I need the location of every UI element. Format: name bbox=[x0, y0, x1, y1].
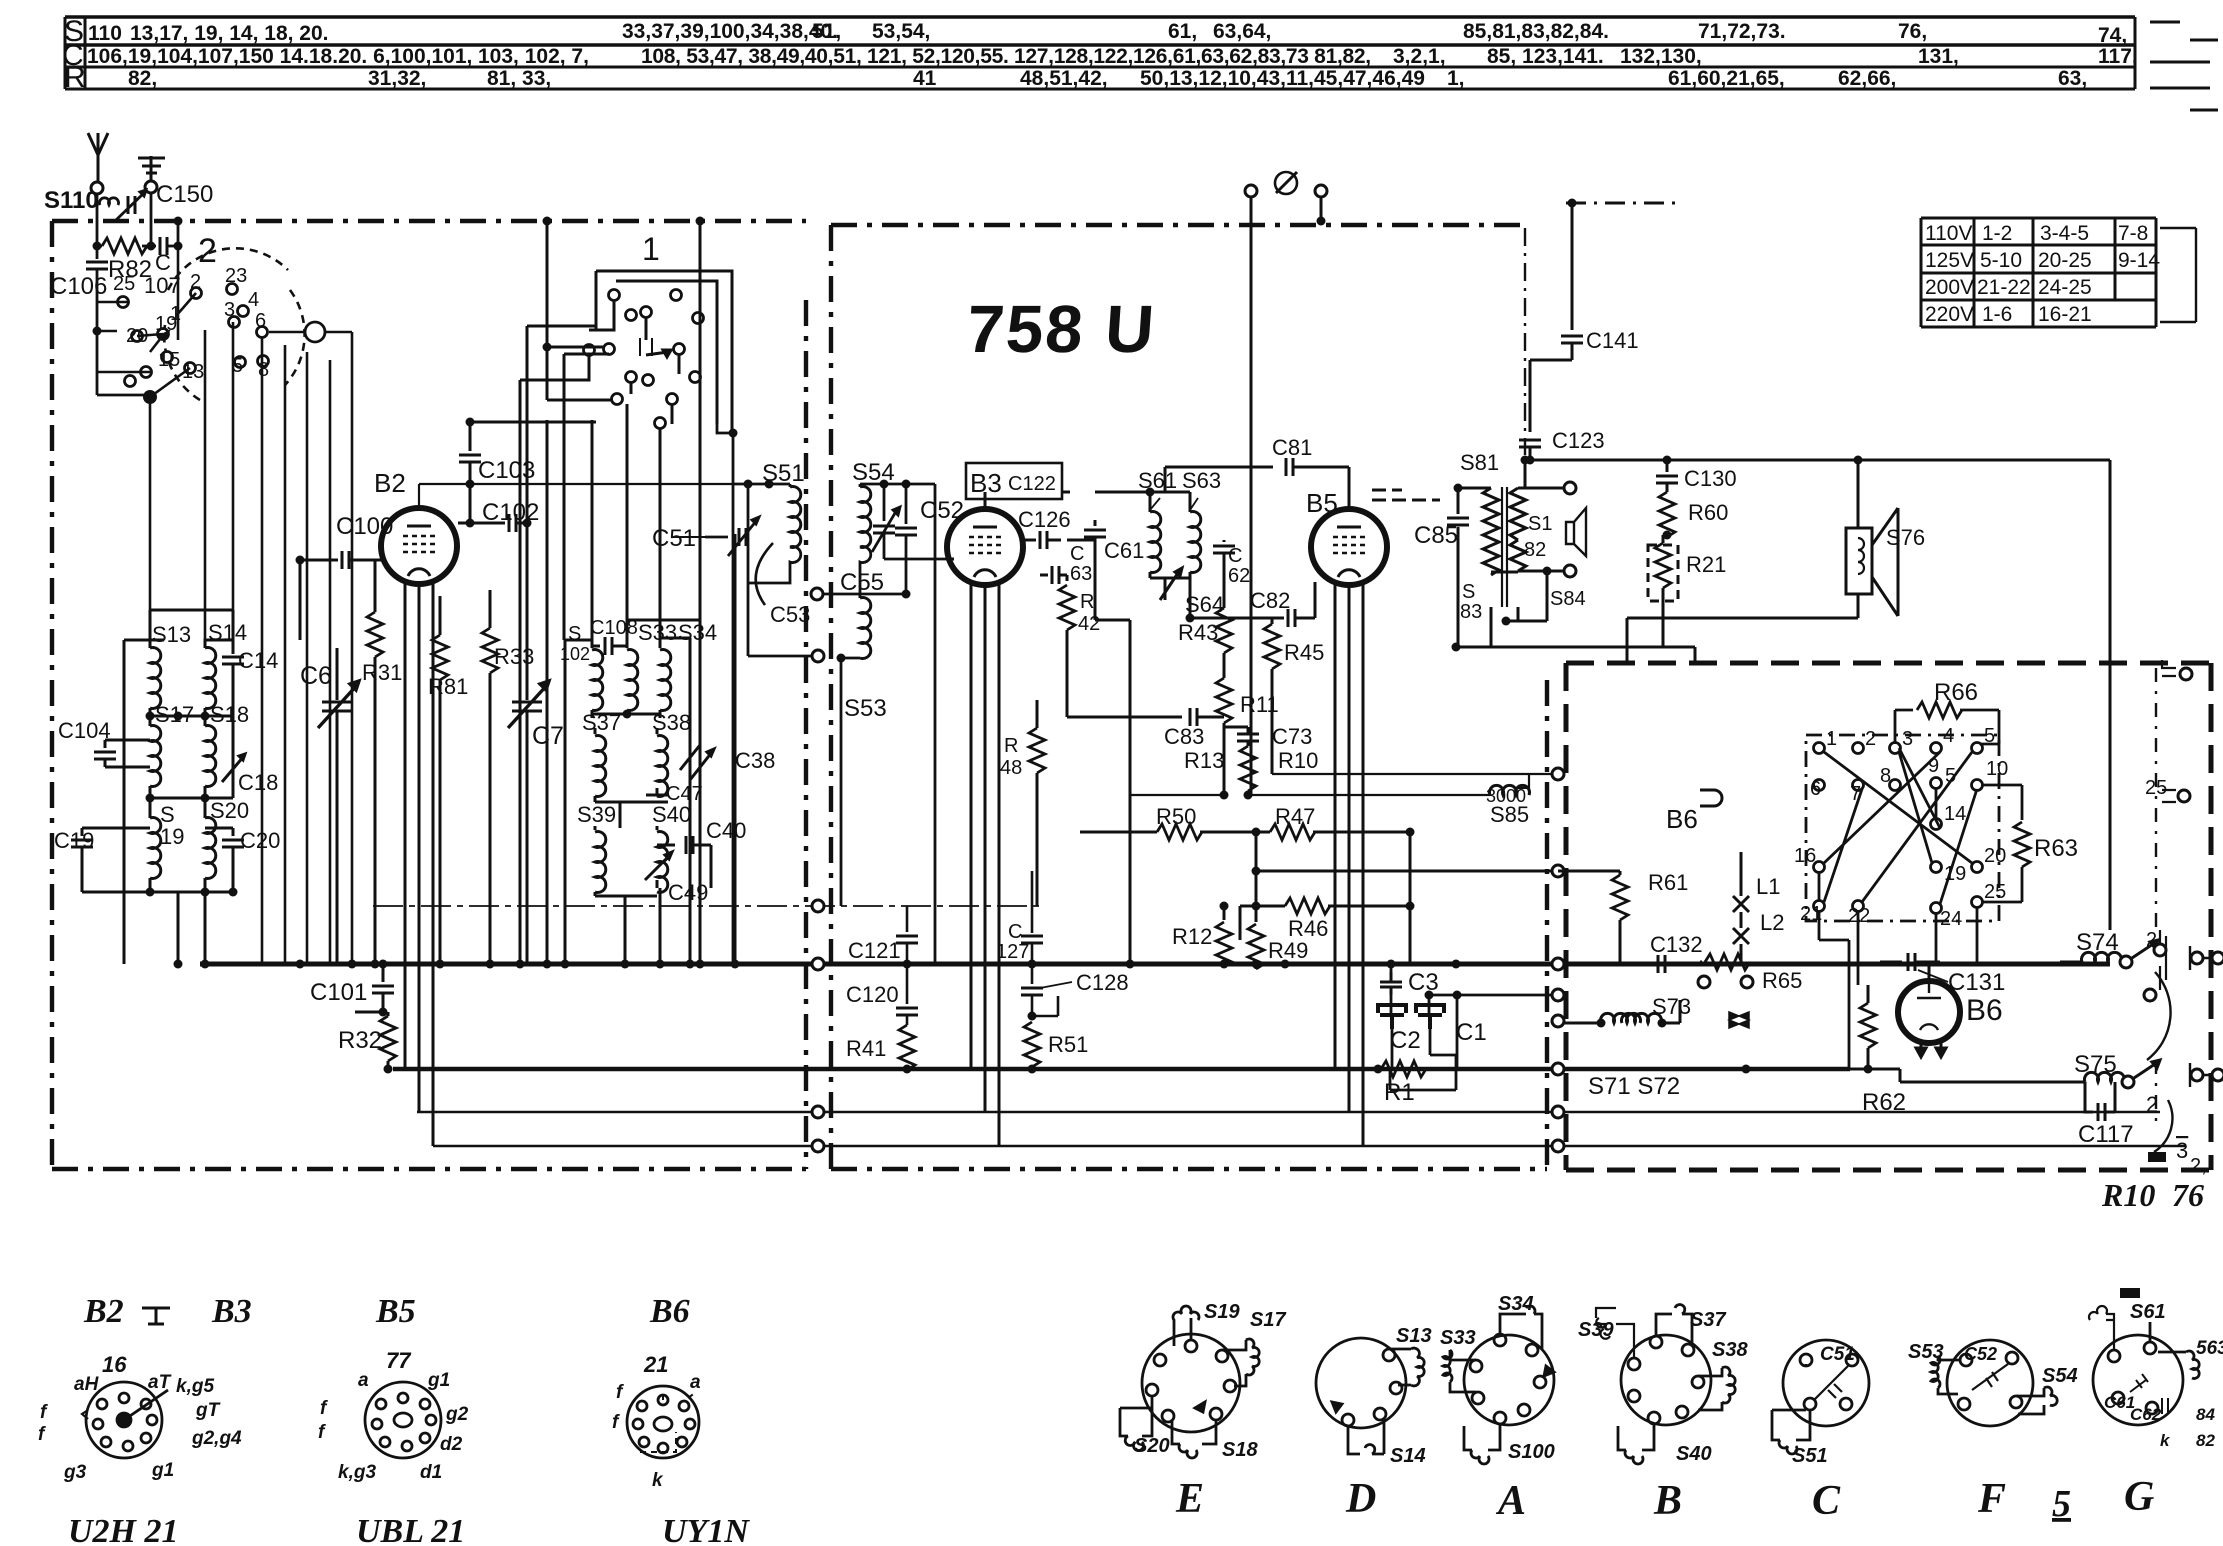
svg-text:24: 24 bbox=[1940, 908, 1962, 930]
B3 label box bbox=[966, 463, 1062, 499]
svg-text:117,: 117, bbox=[2098, 45, 2138, 68]
lamp wires bbox=[1740, 852, 1743, 962]
coil S20 bottom left bbox=[1120, 1396, 1152, 1451]
svg-text:g3: g3 bbox=[63, 1462, 87, 1483]
svg-text:53,54,: 53,54, bbox=[872, 20, 930, 43]
wires leaving bank left bbox=[520, 355, 589, 964]
secondary taps bbox=[1491, 488, 1564, 647]
svg-text:13: 13 bbox=[182, 361, 204, 383]
svg-text:S61: S61 bbox=[1138, 468, 1177, 493]
speaker terminals bbox=[1564, 482, 1576, 494]
svg-text:C19: C19 bbox=[54, 828, 94, 853]
R47 junction down bbox=[1256, 832, 1552, 964]
C61 C62 caps inside bbox=[2130, 1374, 2148, 1392]
table left edge bbox=[64, 17, 67, 89]
svg-text:S34: S34 bbox=[678, 620, 717, 645]
capacitor C85 bbox=[1457, 488, 1460, 514]
wires inside bank bbox=[564, 300, 679, 640]
svg-text:S51: S51 bbox=[1792, 1445, 1828, 1467]
electrolytic C1 bbox=[1416, 1005, 1444, 1029]
wire S64 to C82 bbox=[1190, 617, 1265, 620]
capacitor C126 bbox=[1040, 531, 1047, 549]
coil socket C bbox=[1772, 1340, 1869, 1454]
svg-text:S54: S54 bbox=[852, 459, 895, 486]
antenna terminal bbox=[91, 182, 103, 194]
matrix contact 14 bbox=[1931, 819, 1942, 830]
svg-text:33,37,39,100,34,38,40.: 33,37,39,100,34,38,40. bbox=[622, 20, 838, 43]
table label divider bbox=[84, 17, 87, 89]
svg-text:2,: 2, bbox=[2190, 1155, 2207, 1177]
U2H21 pin labels bbox=[38, 1352, 242, 1483]
svg-text:20-25: 20-25 bbox=[2038, 249, 2092, 272]
resistor R12 bbox=[1223, 906, 1226, 920]
resistor R46 bbox=[1240, 905, 1285, 908]
matrix contacts row2 bbox=[1814, 780, 1825, 791]
capacitor C19 bbox=[82, 828, 150, 836]
capacitor C47 bbox=[646, 795, 668, 802]
capacitor C40 bbox=[657, 844, 675, 847]
svg-text:f: f bbox=[318, 1422, 326, 1443]
S74 wafer arc bbox=[2147, 972, 2171, 1060]
svg-text:1-6: 1-6 bbox=[1982, 303, 2012, 326]
coil S17 right bbox=[1222, 1339, 1259, 1386]
junction S13/S14 bottom bbox=[146, 712, 155, 721]
S61/S63 top wires bbox=[1062, 491, 1190, 494]
svg-text:21: 21 bbox=[1800, 903, 1822, 925]
capacitor C108 bbox=[592, 645, 600, 648]
svg-text:S17: S17 bbox=[155, 702, 194, 727]
svg-text:8: 8 bbox=[258, 359, 269, 381]
svg-text:61,60,21,65,: 61,60,21,65, bbox=[1668, 67, 1785, 90]
svg-text:1,: 1, bbox=[1447, 67, 1465, 90]
svg-text:84: 84 bbox=[2196, 1405, 2215, 1424]
svg-text:C55: C55 bbox=[840, 569, 884, 596]
matrix contacts row4 bbox=[1814, 901, 1825, 912]
svg-text:B5: B5 bbox=[1306, 488, 1338, 518]
svg-text:3: 3 bbox=[1902, 728, 1913, 750]
svg-text:2: 2 bbox=[2146, 929, 2157, 951]
matrix cross wires bbox=[1819, 748, 1977, 904]
svg-text:R10: R10 bbox=[1278, 748, 1318, 773]
wire R46 left vertical bbox=[1239, 906, 1242, 940]
capacitor C123 bbox=[1519, 440, 1541, 447]
svg-text:C18: C18 bbox=[238, 770, 278, 795]
svg-text:S20: S20 bbox=[1134, 1435, 1170, 1457]
svg-text:S14: S14 bbox=[208, 620, 247, 645]
svg-text:85,81,83,82,84.: 85,81,83,82,84. bbox=[1463, 20, 1609, 43]
tube B5 bbox=[1311, 509, 1387, 585]
capacitor C14 bbox=[232, 640, 235, 654]
svg-text:125V: 125V bbox=[1925, 249, 1974, 272]
svg-text:C101: C101 bbox=[310, 979, 367, 1006]
svg-text:g2: g2 bbox=[445, 1404, 469, 1425]
svg-text:C150: C150 bbox=[156, 181, 213, 208]
second bus line bbox=[393, 1067, 1850, 1072]
bank 1 lever arrow bbox=[646, 318, 671, 357]
svg-text:110V: 110V bbox=[1925, 222, 1973, 245]
extra feed wires bank1 to coils bbox=[547, 283, 735, 964]
resistor R82 bbox=[97, 245, 102, 248]
svg-text:g1: g1 bbox=[427, 1370, 450, 1391]
svg-text:S73: S73 bbox=[1652, 994, 1691, 1019]
capacitor C61 bbox=[1094, 520, 1097, 526]
svg-text:C128: C128 bbox=[1076, 970, 1129, 995]
svg-text:19: 19 bbox=[160, 824, 184, 849]
svg-text:63,64,: 63,64, bbox=[1213, 20, 1271, 43]
resistor R81 bbox=[439, 596, 442, 635]
svg-text:E: E bbox=[1175, 1476, 1204, 1522]
C53 arc bbox=[756, 543, 773, 605]
UBL21 pin labels bbox=[318, 1348, 469, 1483]
table line under C row bbox=[65, 66, 2135, 69]
svg-text:6: 6 bbox=[255, 310, 266, 332]
S54 top wire bbox=[860, 483, 935, 486]
lamp L1 bbox=[1733, 896, 1749, 912]
capacitor C131 bbox=[1880, 961, 1902, 964]
capacitor C62 bbox=[1223, 540, 1226, 542]
svg-text:S33: S33 bbox=[1440, 1327, 1476, 1349]
capacitor C132 bbox=[1640, 963, 1650, 966]
svg-text:R1: R1 bbox=[1384, 1079, 1415, 1106]
svg-text:B5: B5 bbox=[375, 1293, 416, 1330]
svg-text:4: 4 bbox=[1943, 725, 1954, 747]
coil S40 bbox=[656, 826, 659, 830]
svg-text:G: G bbox=[2124, 1474, 2154, 1520]
svg-text:f: f bbox=[320, 1398, 328, 1419]
svg-text:21: 21 bbox=[643, 1352, 668, 1377]
frame wires around coil bank bbox=[124, 610, 233, 964]
wire bus to S75 bbox=[1850, 1069, 2080, 1082]
svg-text:C123: C123 bbox=[1552, 428, 1605, 453]
svg-text:S33: S33 bbox=[638, 620, 677, 645]
bank 1 outer frame bbox=[596, 271, 732, 436]
svg-text:S13: S13 bbox=[152, 622, 191, 647]
svg-text:5: 5 bbox=[2052, 1483, 2071, 1525]
matrix contacts row1 bbox=[1814, 743, 1825, 754]
capacitor C52 fixed bbox=[905, 484, 908, 524]
svg-text:B6: B6 bbox=[1966, 994, 2003, 1027]
svg-text:S54: S54 bbox=[2042, 1365, 2078, 1387]
svg-text:C6: C6 bbox=[300, 662, 332, 690]
terminal O wire bbox=[269, 332, 352, 964]
svg-text:R33: R33 bbox=[494, 644, 534, 669]
svg-text:f: f bbox=[612, 1412, 620, 1433]
bus boundary circles bbox=[812, 958, 824, 970]
svg-text:L2: L2 bbox=[1760, 910, 1784, 935]
svg-text:R32: R32 bbox=[338, 1027, 382, 1054]
svg-text:1: 1 bbox=[642, 231, 660, 267]
top stub dot bbox=[1568, 199, 1577, 208]
left chassis box dashed border bbox=[52, 221, 806, 1169]
svg-text:C14: C14 bbox=[238, 648, 278, 673]
svg-text:C120: C120 bbox=[846, 982, 899, 1007]
svg-text:R43: R43 bbox=[1178, 620, 1218, 645]
switch 2 contacts bbox=[191, 288, 202, 299]
svg-text:UBL 21: UBL 21 bbox=[356, 1513, 465, 1546]
speaker S76 coil bbox=[1858, 538, 1864, 574]
resistor R32 bbox=[355, 1012, 388, 1016]
resistor R65 bbox=[1700, 961, 1702, 964]
right chassis box dashed border bbox=[1566, 663, 2211, 1170]
bottom junction row bbox=[146, 888, 155, 897]
C18 variable arrow bbox=[222, 754, 245, 782]
wire down from speaker top line bbox=[1854, 456, 1863, 465]
grid return wire bbox=[374, 560, 377, 592]
S64 bottom wires bbox=[1095, 578, 1190, 964]
left bus start dots bbox=[296, 960, 305, 969]
right edge connector top bbox=[2162, 660, 2176, 676]
junction row 2 bbox=[146, 794, 155, 803]
svg-text:200V: 200V bbox=[1925, 276, 1974, 299]
coil S51 bottom left bbox=[1772, 1364, 1810, 1454]
AVC line bbox=[1130, 794, 1490, 796]
C128 leader bbox=[1040, 982, 1072, 988]
feed wires from top bbox=[543, 217, 552, 226]
resistor R49 bbox=[1255, 906, 1258, 922]
C85 node bbox=[1454, 484, 1463, 493]
svg-text:9: 9 bbox=[1928, 755, 1939, 777]
C49 variable arrow bbox=[645, 852, 672, 880]
svg-text:S1: S1 bbox=[1528, 513, 1552, 535]
coil S51 bbox=[789, 484, 792, 487]
antenna symbol bbox=[88, 133, 108, 181]
svg-text:d2: d2 bbox=[440, 1434, 463, 1455]
B2 grid cap C100 bbox=[300, 559, 338, 562]
svg-text:S84: S84 bbox=[1550, 588, 1586, 610]
svg-text:C102: C102 bbox=[482, 499, 539, 526]
coil socket B bbox=[1596, 1305, 1735, 1464]
capacitor C103 bbox=[469, 422, 472, 451]
svg-text:3-4-5: 3-4-5 bbox=[2040, 222, 2089, 245]
socket U2H21 bbox=[82, 1382, 168, 1458]
coil S13 right bbox=[1389, 1348, 1424, 1386]
svg-text:R13: R13 bbox=[1184, 748, 1224, 773]
header divider symbol bbox=[142, 1308, 170, 1324]
svg-text:8: 8 bbox=[1880, 765, 1891, 787]
svg-text:B: B bbox=[1653, 1478, 1682, 1524]
coil S39 top left bbox=[1596, 1308, 1634, 1358]
C100 lead from coil area bbox=[299, 560, 302, 640]
svg-text:S81: S81 bbox=[1460, 450, 1499, 475]
svg-text:C100: C100 bbox=[336, 513, 393, 540]
svg-text:B6: B6 bbox=[1666, 804, 1698, 834]
matrix pin labels bbox=[1794, 725, 2008, 930]
svg-text:2: 2 bbox=[190, 271, 201, 293]
coil S18 bottom bbox=[1172, 1420, 1216, 1458]
svg-text:S: S bbox=[1462, 581, 1475, 603]
svg-text:3: 3 bbox=[224, 299, 235, 321]
capacitor C102 bbox=[458, 522, 505, 525]
svg-text:C2: C2 bbox=[1390, 1027, 1421, 1054]
svg-text:g1: g1 bbox=[151, 1460, 174, 1481]
svg-text:S40: S40 bbox=[1676, 1443, 1712, 1465]
C127 capacitor bbox=[1031, 871, 1034, 933]
coil S33 bbox=[626, 646, 629, 648]
right edge connector low bbox=[2190, 946, 2211, 970]
svg-text:R: R bbox=[1080, 591, 1094, 613]
svg-text:63,: 63, bbox=[2058, 67, 2087, 90]
matrix to B6 wires bbox=[1819, 906, 1977, 1069]
svg-text:76: 76 bbox=[2172, 1177, 2204, 1213]
wire to dashed border dot bbox=[174, 217, 183, 226]
B3 cathode wires down bbox=[971, 584, 999, 1146]
svg-text:1-2: 1-2 bbox=[1982, 222, 2012, 245]
svg-text:UY1N: UY1N bbox=[662, 1513, 750, 1546]
B5 cathode wires bbox=[1335, 584, 1363, 1146]
capacitor series bbox=[160, 237, 167, 255]
svg-text:R47: R47 bbox=[1275, 804, 1315, 829]
svg-text:U2H 21: U2H 21 bbox=[68, 1513, 179, 1546]
C150 variable capacitor bbox=[128, 196, 135, 214]
plate line to S51 bbox=[733, 433, 790, 964]
svg-text:C61: C61 bbox=[1104, 538, 1144, 563]
rectifier arrows bbox=[1729, 1012, 1749, 1028]
svg-text:R: R bbox=[64, 61, 86, 94]
table bottom border bbox=[65, 88, 2135, 91]
svg-text:R60: R60 bbox=[1688, 500, 1728, 525]
resistor R62 bbox=[1867, 985, 1870, 1003]
R21 dashed box bbox=[1648, 545, 1678, 601]
table top border bbox=[65, 15, 2135, 19]
svg-text:S71 S72: S71 S72 bbox=[1588, 1073, 1680, 1100]
main bus earth line bbox=[200, 962, 2110, 967]
transformer primary bbox=[1458, 487, 1491, 490]
coil socket E bbox=[1120, 1306, 1259, 1458]
coil S61 top bbox=[2089, 1306, 2114, 1350]
switch 2 lever bbox=[137, 293, 196, 397]
svg-text:C126: C126 bbox=[1018, 507, 1071, 532]
wire C3 to C2/C1 bbox=[1391, 995, 1552, 1069]
svg-text:5: 5 bbox=[232, 355, 243, 377]
svg-text:C38: C38 bbox=[735, 748, 775, 773]
coil S100 bbox=[591, 640, 594, 648]
svg-text:42: 42 bbox=[1078, 613, 1100, 635]
svg-text:S18: S18 bbox=[210, 702, 249, 727]
svg-text:C40: C40 bbox=[706, 818, 746, 843]
wire to C141 bbox=[1571, 203, 1574, 330]
coil S40 bottom bbox=[1618, 1424, 1654, 1464]
B6 cathode arrows bbox=[1916, 1043, 1946, 1057]
coil S53 bbox=[860, 598, 871, 659]
svg-text:16-21: 16-21 bbox=[2038, 303, 2092, 326]
resistor R63 bbox=[2021, 785, 2024, 820]
matrix contacts row3 bbox=[1814, 862, 1825, 873]
svg-text:41: 41 bbox=[913, 67, 937, 90]
phone jack terminals bbox=[1245, 185, 1257, 197]
svg-text:S53: S53 bbox=[1908, 1341, 1944, 1363]
svg-text:1: 1 bbox=[1826, 728, 1837, 750]
transformer secondary bbox=[1510, 488, 1526, 571]
svg-text:S51: S51 bbox=[762, 460, 805, 487]
svg-text:16: 16 bbox=[102, 1352, 127, 1377]
node dot ground bbox=[147, 242, 156, 251]
svg-text:R61: R61 bbox=[1648, 870, 1688, 895]
svg-text:C1: C1 bbox=[1456, 1019, 1487, 1046]
svg-text:106,19,104,107,150 14.18.20. 6: 106,19,104,107,150 14.18.20. 6,100,101, bbox=[87, 45, 472, 68]
svg-text:R45: R45 bbox=[1284, 640, 1324, 665]
svg-text:22: 22 bbox=[1848, 905, 1870, 927]
svg-text:4: 4 bbox=[248, 289, 259, 311]
svg-text:R11: R11 bbox=[1240, 692, 1279, 717]
svg-text:a: a bbox=[358, 1370, 369, 1391]
svg-text:C81: C81 bbox=[1272, 435, 1312, 460]
bracket right of table bbox=[2160, 228, 2196, 322]
svg-text:S74: S74 bbox=[2076, 929, 2119, 956]
continuation dashes right bbox=[2150, 22, 2218, 110]
socket UY1N bbox=[627, 1386, 699, 1458]
resistor R60 bbox=[1659, 492, 1675, 537]
junction row bbox=[623, 710, 632, 719]
svg-text:25: 25 bbox=[113, 273, 135, 295]
heater line 1 bbox=[417, 1111, 2160, 1114]
svg-text:S63: S63 bbox=[1182, 468, 1221, 493]
coil socket G bbox=[2089, 1306, 2199, 1425]
coil S63 bbox=[1189, 492, 1192, 512]
B2 plate lead bbox=[419, 484, 733, 508]
svg-text:16: 16 bbox=[1794, 845, 1816, 867]
variable capacitor C7 bbox=[512, 326, 596, 964]
svg-text:25: 25 bbox=[1984, 881, 2006, 903]
svg-text:758 U: 758 U bbox=[964, 292, 1158, 367]
lower horizontal return wires bbox=[0, 1112, 417, 1190]
svg-text:5: 5 bbox=[1945, 765, 1956, 787]
resistor R43 bbox=[1216, 608, 1232, 653]
svg-text:C108: C108 bbox=[590, 617, 638, 639]
long loop wires lower left bbox=[405, 1069, 433, 1146]
black mark upper bbox=[2148, 1152, 2166, 1162]
svg-text:k,g5: k,g5 bbox=[176, 1376, 214, 1397]
R65 terminals bbox=[1698, 976, 1710, 988]
capacitor C63 bbox=[1052, 566, 1059, 584]
bank 1 contacts bbox=[609, 290, 620, 301]
svg-text:C130: C130 bbox=[1684, 466, 1737, 491]
switch 2 dashed circle bbox=[164, 248, 304, 400]
svg-text:77: 77 bbox=[386, 1348, 412, 1373]
svg-text:aT: aT bbox=[148, 1372, 172, 1393]
frame wires bbox=[565, 620, 700, 964]
svg-text:7: 7 bbox=[1850, 783, 1861, 805]
svg-text:S39: S39 bbox=[1578, 1319, 1614, 1341]
svg-text:61,: 61, bbox=[1168, 20, 1197, 43]
svg-text:132,130,: 132,130, bbox=[1620, 45, 1702, 68]
capacitor C130 bbox=[1666, 460, 1669, 472]
wire antenna to junction bbox=[97, 193, 151, 246]
R51 resistor bbox=[1024, 1022, 1040, 1067]
B5 top cap dashes bbox=[1372, 490, 1440, 500]
capacitor C106 bbox=[96, 246, 99, 259]
svg-text:B2: B2 bbox=[83, 1293, 124, 1330]
svg-text:3: 3 bbox=[2176, 1138, 2188, 1163]
resistor R45 bbox=[1271, 618, 1274, 624]
svg-text:19: 19 bbox=[1944, 863, 1966, 885]
S75 contact bbox=[2122, 1076, 2134, 1088]
svg-text:C103: C103 bbox=[478, 457, 535, 484]
svg-text:2: 2 bbox=[198, 232, 217, 270]
capacitor C3 bbox=[1380, 972, 1402, 995]
R41 resistor bbox=[899, 1025, 915, 1070]
svg-text:k: k bbox=[2160, 1431, 2171, 1450]
svg-text:R10: R10 bbox=[2101, 1177, 2155, 1213]
long vertical to bus bbox=[934, 484, 937, 964]
coil S74 bbox=[2082, 952, 2122, 962]
svg-text:15: 15 bbox=[158, 349, 180, 371]
svg-text:R: R bbox=[1004, 735, 1018, 757]
ground symbol bbox=[138, 156, 165, 181]
capacitor C81 bbox=[1165, 466, 1273, 469]
coil S63 right bbox=[2158, 1351, 2199, 1379]
transformer core bbox=[1502, 487, 1507, 607]
svg-text:102: 102 bbox=[560, 644, 590, 664]
